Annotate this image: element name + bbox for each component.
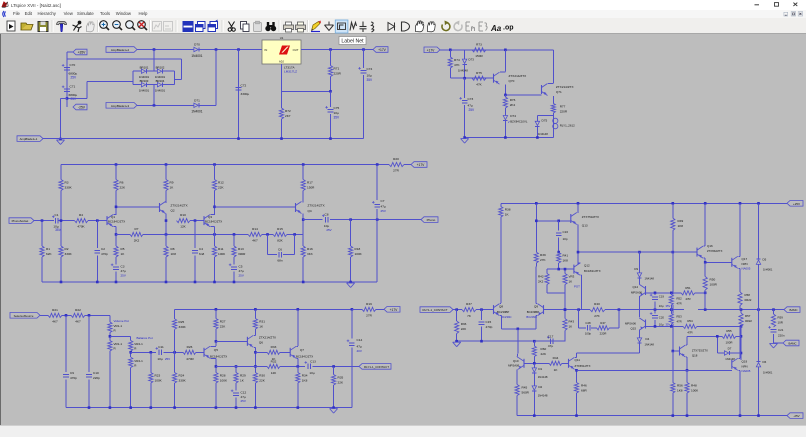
resistor R2 <box>59 246 63 257</box>
svg-text:R38: R38 <box>505 208 511 212</box>
svg-text:4K7: 4K7 <box>75 320 81 324</box>
svg-text:ADJ: ADJ <box>279 60 285 64</box>
bias column continues <box>672 252 674 294</box>
net label AmpBlade1+1 <box>17 136 43 142</box>
wire Q10 emitter down <box>516 368 518 370</box>
svg-text:VR1-1: VR1-1 <box>114 324 123 328</box>
svg-text:RLY1-1_CONTACT: RLY1-1_CONTACT <box>364 365 389 369</box>
wire Q5 collector to Q6 base <box>216 340 248 342</box>
wire phono input <box>34 220 54 222</box>
svg-text:D5: D5 <box>763 258 767 262</box>
resistor R10 <box>177 219 191 223</box>
transistor Q2 PNP <box>165 191 167 203</box>
svg-text:BAMC: BAMC <box>789 308 797 312</box>
resistor R42 <box>545 274 549 285</box>
net label AmpBlade1+3 <box>106 103 137 109</box>
net flag +25V <box>787 201 803 207</box>
resistor R39 <box>535 203 537 252</box>
capacitor C73 <box>464 78 466 98</box>
svg-text:C4: C4 <box>199 247 203 251</box>
svg-text:BC239BP: BC239BP <box>527 310 539 314</box>
svg-text:1N4001: 1N4001 <box>139 88 150 92</box>
svg-text:Q12: Q12 <box>584 264 590 268</box>
wire Q19 emitter <box>738 369 740 371</box>
resistor R77 <box>551 103 555 113</box>
wire Q16 emitter to Q17 base <box>704 257 706 259</box>
net flag -25V amp <box>787 413 803 419</box>
wire Q1 emitter to feedback row <box>114 226 117 228</box>
resistor R45 <box>515 385 519 396</box>
svg-text:Q10: Q10 <box>513 359 519 363</box>
svg-text:D2: D2 <box>538 385 542 389</box>
svg-text:VR3: VR3 <box>569 275 575 279</box>
svg-text:R18: R18 <box>355 247 361 251</box>
svg-text:R72: R72 <box>285 109 291 113</box>
svg-text:-25V: -25V <box>793 414 799 418</box>
wire Q17 collector <box>738 255 740 257</box>
svg-text:BR103: BR103 <box>140 79 149 83</box>
wire Q5 emitter <box>211 357 216 359</box>
resistor R72 <box>281 91 283 108</box>
transistor Q14 mirrored <box>639 280 641 284</box>
svg-text:100R: 100R <box>726 341 733 345</box>
svg-text:Q14: Q14 <box>633 285 639 289</box>
resistor R8 <box>164 246 168 257</box>
svg-text:C10: C10 <box>93 371 99 375</box>
svg-text:0R22: 0R22 <box>745 319 752 323</box>
svg-text:25V: 25V <box>121 273 126 277</box>
svg-text:470p: 470p <box>70 376 77 380</box>
Q14 base row <box>646 292 682 294</box>
svg-text:PhonoSocket: PhonoSocket <box>12 219 29 223</box>
net label PhonoSocket input <box>9 218 34 224</box>
diode D70 <box>192 49 194 51</box>
diode D1 <box>533 363 535 366</box>
svg-text:1K8: 1K8 <box>171 252 177 256</box>
svg-text:330K: 330K <box>65 252 73 256</box>
svg-text:R51: R51 <box>685 286 691 290</box>
wire Q6 emitter up <box>254 334 256 336</box>
diode D71 <box>192 104 194 106</box>
ground phono <box>347 282 355 284</box>
capacitor C17 <box>549 338 551 344</box>
bridge rectifier frame <box>132 71 134 85</box>
capacitor C1 <box>54 218 56 224</box>
wire Q13 base row <box>536 220 571 222</box>
svg-text:35V: 35V <box>367 78 374 82</box>
resistor R28 <box>214 373 218 384</box>
resistor R1 <box>41 221 43 246</box>
wire Q7 emitter <box>297 357 298 359</box>
wire ground drop <box>61 97 68 99</box>
diode D4 <box>639 336 641 338</box>
svg-text:560R: 560R <box>522 391 530 395</box>
wire Q1 collector <box>114 214 117 216</box>
svg-text:C7: C7 <box>381 199 385 203</box>
resistor R44 <box>549 361 562 365</box>
svg-text:R35: R35 <box>338 376 344 380</box>
wire regulator OUT to +17V <box>301 49 373 51</box>
svg-text:2K2: 2K2 <box>134 239 140 243</box>
resistor R4 <box>75 219 89 223</box>
power amp top rail +25V <box>501 202 787 204</box>
resistor R19 <box>362 307 376 311</box>
svg-text:C15: C15 <box>486 320 492 324</box>
resistor R36 <box>456 310 458 321</box>
wire amp input <box>453 309 462 311</box>
wire Q70 emitter to Q71 base <box>505 94 541 96</box>
svg-text:Q4: Q4 <box>308 209 312 213</box>
svg-text:BZX84C10VL: BZX84C10VL <box>510 120 528 124</box>
transistor Q3 <box>203 216 205 225</box>
svg-text:1N4148: 1N4148 <box>538 132 548 136</box>
svg-text:R1: R1 <box>46 247 50 251</box>
wire Q4 collector to phono row <box>302 214 304 247</box>
svg-text:R46: R46 <box>581 384 587 388</box>
wire R10 to Q3 base <box>190 220 204 222</box>
svg-text:C17: C17 <box>548 334 554 338</box>
svg-text:47K: 47K <box>476 83 482 87</box>
net label SelectedSource <box>10 313 40 319</box>
wire Q8 collector <box>499 303 502 305</box>
svg-text:R23: R23 <box>155 374 161 378</box>
svg-text:+35V: +35V <box>78 51 87 55</box>
svg-text:R32: R32 <box>271 359 277 363</box>
svg-text:ZTX214/ZTX: ZTX214/ZTX <box>259 336 276 340</box>
ground amp input <box>453 341 461 343</box>
svg-text:22K: 22K <box>461 327 467 331</box>
wire output column to Q19 <box>740 327 742 361</box>
svg-text:Q18: Q18 <box>692 354 698 358</box>
svg-text:47µ: 47µ <box>357 345 362 349</box>
wire phono top rail +17V <box>61 164 389 166</box>
svg-text:VR1-1: VR1-1 <box>114 342 123 346</box>
svg-text:27K: 27K <box>540 258 546 262</box>
svg-text:Q16: Q16 <box>707 244 713 248</box>
svg-text:R14: R14 <box>252 227 258 231</box>
svg-text:MPSA06: MPSA06 <box>631 291 642 295</box>
svg-text:R57: R57 <box>745 314 751 318</box>
svg-text:RLY1_2612: RLY1_2612 <box>560 124 575 128</box>
svg-text:47R: 47R <box>677 319 682 323</box>
ground PSU left <box>57 139 65 141</box>
svg-text:R31: R31 <box>259 320 265 324</box>
resistor R48 <box>686 370 688 382</box>
svg-text:10µ: 10µ <box>157 357 162 361</box>
wire Q18 base <box>673 350 680 352</box>
wire Q10 base to D1 node <box>524 362 549 364</box>
resistor R13 <box>233 234 235 246</box>
resistor R31 <box>254 309 256 318</box>
capacitor C20 <box>654 310 656 314</box>
bias chain diode D9 <box>639 252 641 271</box>
diode D75 <box>536 118 538 122</box>
svg-text:ZTX753/ZTX: ZTX753/ZTX <box>582 215 599 219</box>
resistor R21 <box>48 313 62 317</box>
transistor Q1 <box>106 216 108 225</box>
capacitor C74 <box>363 50 365 69</box>
svg-text:25V: 25V <box>239 273 244 277</box>
svg-text:Q9: Q9 <box>534 305 538 309</box>
wire relay top rail <box>440 49 553 51</box>
svg-text:1K: 1K <box>569 280 573 284</box>
svg-text:47µ: 47µ <box>468 104 473 108</box>
svg-text:10p: 10p <box>563 237 568 241</box>
driver Q18 PNP <box>679 347 681 356</box>
svg-text:220R: 220R <box>560 110 568 114</box>
svg-text:100K: 100K <box>355 252 363 256</box>
resistor R3 <box>60 165 62 180</box>
svg-text:R27: R27 <box>220 320 226 324</box>
balance pot VR2-1 lower <box>130 351 132 357</box>
wire relay block bottom rail <box>465 137 554 139</box>
svg-text:R45: R45 <box>522 386 528 390</box>
svg-text:Q17: Q17 <box>742 257 748 261</box>
wire R54 to output device column <box>697 325 741 327</box>
svg-text:C21: C21 <box>778 328 784 332</box>
resistor R9 <box>164 180 168 191</box>
net flag Phono output <box>421 217 438 223</box>
resistor R15 <box>273 232 287 236</box>
svg-text:BR102: BR102 <box>156 65 165 69</box>
svg-text:150R: 150R <box>475 54 483 58</box>
svg-text:R20: R20 <box>393 157 399 161</box>
svg-text:R4: R4 <box>79 213 83 217</box>
svg-text:100K: 100K <box>155 379 163 383</box>
wire Q18 collector down <box>686 356 687 358</box>
svg-text:390R: 390R <box>238 252 246 256</box>
svg-text:22K: 22K <box>541 352 547 356</box>
capacitor C70 <box>64 66 70 68</box>
svg-text:C72: C72 <box>241 84 247 88</box>
svg-text:Q71: Q71 <box>556 90 562 94</box>
svg-text:R59: R59 <box>778 316 784 320</box>
svg-text:RLY1-1_CONTACT: RLY1-1_CONTACT <box>423 308 448 312</box>
svg-text:R60: R60 <box>541 347 547 351</box>
capacitor C13 <box>307 364 309 370</box>
svg-text:BR101: BR101 <box>140 65 149 69</box>
VAS Q13 PNP <box>577 203 579 209</box>
svg-text:U1: U1 <box>280 36 284 40</box>
resistor R29 <box>235 366 237 372</box>
resistor R27 <box>215 309 217 318</box>
svg-text:+25V: +25V <box>793 202 800 206</box>
volume pot VR1-1 upper <box>109 315 111 322</box>
svg-text:D73: D73 <box>469 58 475 62</box>
svg-text:R77: R77 <box>560 105 566 109</box>
wire bridge top center tap <box>153 50 155 72</box>
svg-text:2K2: 2K2 <box>538 280 544 284</box>
capacitor C14 <box>351 309 353 338</box>
wire Q3 collector <box>211 214 215 216</box>
capacitor C2 <box>96 221 98 248</box>
wire tail down <box>517 329 519 354</box>
capacitor C75 <box>330 91 332 107</box>
svg-text:10µ: 10µ <box>334 111 339 115</box>
svg-text:R53: R53 <box>677 315 683 319</box>
svg-text:1N4001: 1N4001 <box>155 88 166 92</box>
wire Q3 collector to Q4 base <box>215 206 296 208</box>
resistor R5 <box>114 246 118 257</box>
svg-text:R10: R10 <box>180 213 186 217</box>
wire D70 to regulator IN <box>201 49 262 51</box>
svg-text:470p: 470p <box>101 252 108 256</box>
wire Q12 emitter <box>580 274 581 276</box>
wire Q19 collector <box>738 357 740 359</box>
wire Q9 collector <box>536 303 537 305</box>
wire VR3 node to feedback divider <box>564 293 566 318</box>
pot VR3 <box>563 274 567 285</box>
svg-text:1N4148: 1N4148 <box>645 343 655 347</box>
svg-text:1N4148: 1N4148 <box>538 375 548 379</box>
bias loop bottom <box>547 292 565 294</box>
capacitor C71 <box>64 88 70 90</box>
svg-text:35V: 35V <box>334 116 341 120</box>
svg-text:68R: 68R <box>581 389 587 393</box>
diode BR103 <box>139 84 141 86</box>
svg-text:C14: C14 <box>357 338 363 342</box>
svg-text:27R: 27R <box>393 169 399 173</box>
svg-text:220R: 220R <box>600 332 607 336</box>
svg-text:R76: R76 <box>510 98 516 102</box>
diode D73 <box>464 50 466 58</box>
svg-text:470K: 470K <box>77 225 85 229</box>
resistor R26 <box>183 350 196 354</box>
resistor R49 <box>672 203 674 218</box>
volume pot VR1-1 lower <box>109 333 111 341</box>
wire Q17 emitter <box>738 267 740 269</box>
svg-text:C70: C70 <box>70 63 76 67</box>
wire R44 to Q11 base <box>562 362 569 364</box>
svg-text:1N4148: 1N4148 <box>725 357 735 361</box>
svg-text:R19: R19 <box>366 302 372 306</box>
svg-text:47R: 47R <box>677 301 682 305</box>
svg-text:1K8: 1K8 <box>563 259 569 263</box>
wire D75 relay tie <box>537 114 553 116</box>
resistor R17 <box>302 165 304 180</box>
svg-text:ZTX753/ZTX: ZTX753/ZTX <box>692 349 708 353</box>
resistor R55 <box>722 334 736 338</box>
svg-text:100K: 100K <box>220 379 228 383</box>
svg-text:Q15: Q15 <box>631 326 637 330</box>
svg-text:22K: 22K <box>220 325 226 329</box>
resistor R71 <box>330 50 332 66</box>
resistor R12 <box>212 180 216 191</box>
feedback row wire <box>116 233 130 235</box>
svg-text:ZTX214/ZTX: ZTX214/ZTX <box>171 204 188 208</box>
wire Q70 base row <box>450 77 493 79</box>
svg-text:R33: R33 <box>271 345 277 349</box>
svg-text:C20: C20 <box>659 316 665 320</box>
wire balance tap row <box>131 351 156 353</box>
svg-text:25V: 25V <box>71 76 78 80</box>
resistor R16 <box>301 246 305 257</box>
capacitor C12 <box>235 383 237 391</box>
svg-text:C11: C11 <box>158 345 164 349</box>
wire Q9 emitter <box>536 315 537 317</box>
svg-text:R22: R22 <box>75 308 81 312</box>
capacitor C5 <box>233 257 235 265</box>
svg-text:R12: R12 <box>218 181 224 185</box>
resistor R53 <box>670 310 672 314</box>
resistor R14 <box>248 232 262 236</box>
transistor Q15 mirrored <box>645 320 647 329</box>
diode D7 <box>723 352 724 354</box>
svg-text:C28: C28 <box>585 321 591 325</box>
svg-text:AmpBlade1+1: AmpBlade1+1 <box>20 137 38 141</box>
wire Q1 collector to Q2 base <box>116 206 160 208</box>
svg-text:1N4001: 1N4001 <box>763 371 773 375</box>
svg-text:+17V: +17V <box>417 163 426 167</box>
svg-text:40V: 40V <box>357 349 362 353</box>
svg-text:12K: 12K <box>180 225 186 229</box>
net label RLY1-1_CONTACT amp input <box>420 307 453 313</box>
svg-text:3K3: 3K3 <box>307 252 313 256</box>
svg-text:R44: R44 <box>553 356 559 360</box>
resistor R41 <box>557 253 561 264</box>
phono output row <box>303 219 322 221</box>
svg-text:BC184C/ZTX: BC184C/ZTX <box>108 220 125 224</box>
svg-text:10µ: 10µ <box>659 304 664 308</box>
svg-text:SelectedSource: SelectedSource <box>14 314 34 318</box>
wire Q8 emitter <box>500 315 502 317</box>
svg-text:R2: R2 <box>65 247 69 251</box>
wire Q11 collector <box>575 356 577 358</box>
svg-text:3300µ: 3300µ <box>241 92 250 96</box>
svg-text:ZTX214/ZTX: ZTX214/ZTX <box>556 85 574 89</box>
svg-text:25V: 25V <box>381 209 386 213</box>
wire R33 to Q7 base <box>280 351 290 353</box>
transistor Q4 PNP <box>302 191 304 203</box>
wire Q16 collector <box>704 245 706 247</box>
resistor R38 <box>500 203 502 206</box>
regulator U1 LT317A <box>262 40 301 64</box>
svg-text:6n8: 6n8 <box>199 252 204 256</box>
svg-text:R15: R15 <box>277 227 283 231</box>
svg-text:BC184C/ZTX: BC184C/ZTX <box>296 355 313 359</box>
svg-text:R8: R8 <box>171 247 175 251</box>
svg-text:62K: 62K <box>46 252 52 256</box>
wire R26 to Q5 base <box>196 351 204 353</box>
svg-text:R17: R17 <box>307 181 313 185</box>
resistor R30 <box>253 373 257 384</box>
transistor Q70 <box>493 74 495 83</box>
svg-text:4K7: 4K7 <box>252 239 258 243</box>
resistor R18 <box>350 220 352 246</box>
ground tone block <box>330 408 338 410</box>
svg-text:2K2: 2K2 <box>510 103 516 107</box>
svg-text:ZTX214/ZTX: ZTX214/ZTX <box>509 74 527 78</box>
svg-text:BC239BP: BC239BP <box>497 310 509 314</box>
capacitor C15 <box>481 310 483 320</box>
svg-text:.op: .op <box>503 25 514 32</box>
resistor R24 <box>173 373 177 384</box>
svg-text:47R: 47R <box>685 297 690 301</box>
svg-text:330K: 330K <box>65 186 73 190</box>
svg-text:Q7: Q7 <box>300 348 304 352</box>
svg-text:220R: 220R <box>334 72 342 76</box>
svg-text:ZTX652/ZTX: ZTX652/ZTX <box>707 249 723 253</box>
resistor R74 <box>449 50 451 57</box>
wire bottom AC rail <box>137 104 192 106</box>
svg-text:R37: R37 <box>466 302 472 306</box>
resistor R59 and C21 zobel <box>773 310 775 314</box>
wire tone top rail <box>175 308 352 310</box>
svg-text:1N4148: 1N4148 <box>458 69 468 73</box>
svg-text:C13: C13 <box>310 359 316 363</box>
wire bridge bottom center tap <box>153 85 155 106</box>
svg-text:IN: IN <box>265 48 268 52</box>
